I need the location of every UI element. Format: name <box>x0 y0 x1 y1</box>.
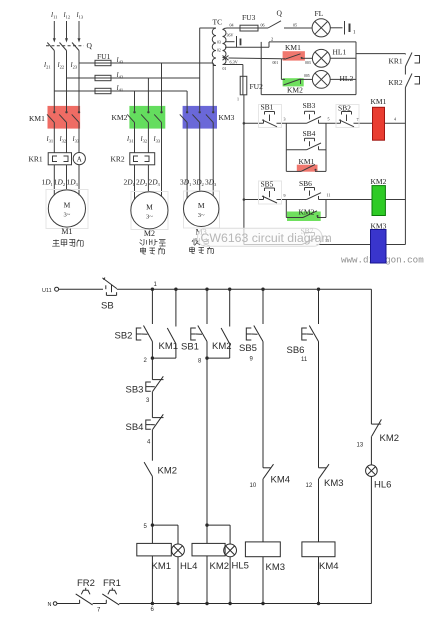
wire KM3 phase drops <box>187 28 213 109</box>
thermal contact FR1 <box>102 588 119 605</box>
wire KM1 outputs <box>54 127 79 153</box>
contactor KM1 main contacts (red highlight) <box>48 106 81 129</box>
svg-text:HL6: HL6 <box>374 480 391 491</box>
svg-text:FU3: FU3 <box>242 13 256 22</box>
thermal relay KR2 <box>130 153 155 165</box>
row 2 wires <box>244 199 406 201</box>
svg-text:M: M <box>198 201 205 210</box>
lamp panel loop wires <box>261 42 356 95</box>
svg-text:M1: M1 <box>61 227 72 236</box>
wire between FR2 FR1 <box>93 603 107 605</box>
svg-text:HL2: HL2 <box>340 74 354 83</box>
wire l43 branch <box>79 62 213 64</box>
contact KM1 latch (ladder) <box>152 289 176 358</box>
wire branch D <box>318 342 320 468</box>
wire KM2 outputs <box>135 127 162 197</box>
label 电动机 (M3, stylized) <box>190 247 214 254</box>
svg-text:KM4: KM4 <box>271 475 291 486</box>
svg-text:M: M <box>64 201 71 210</box>
svg-text:KM2: KM2 <box>112 113 128 122</box>
fuse FU1-c <box>95 88 111 93</box>
lamp HL5 <box>224 525 237 603</box>
pushbutton SB1 (ladder NO) <box>191 289 207 358</box>
contact KM1 self-latch (red highlight) <box>297 165 318 172</box>
pushbutton SB7 (NO) <box>302 233 317 245</box>
svg-text:l33: l33 <box>154 134 161 144</box>
contactor KM2 main contacts (green highlight) <box>129 106 165 129</box>
terminal U11 <box>55 287 59 291</box>
label 冷却泵 (stylized) <box>140 239 166 246</box>
svg-text:KM2: KM2 <box>371 177 387 186</box>
wire top rail <box>117 288 372 290</box>
svg-text:05: 05 <box>293 23 297 28</box>
svg-text:02: 02 <box>217 49 221 53</box>
svg-text:TC: TC <box>213 18 223 27</box>
pushbutton SB3 (NO start) <box>305 111 322 123</box>
svg-text:SB: SB <box>101 301 114 312</box>
svg-text:1: 1 <box>154 282 158 288</box>
svg-text:HL4: HL4 <box>180 561 197 572</box>
svg-text:l22: l22 <box>58 60 65 70</box>
svg-text:36V: 36V <box>227 33 234 38</box>
svg-text:2D2: 2D2 <box>136 178 147 188</box>
svg-text:KM1: KM1 <box>285 43 301 52</box>
svg-text:l11: l11 <box>51 10 57 20</box>
svg-text:5: 5 <box>328 117 330 122</box>
svg-text:KM2: KM2 <box>380 433 400 444</box>
svg-text:9: 9 <box>250 357 254 363</box>
wire branch B trunk <box>206 358 208 525</box>
svg-text:12: 12 <box>306 483 313 489</box>
svg-text:9: 9 <box>284 193 286 198</box>
contact KM2 aux (green highlight) <box>283 78 304 86</box>
svg-text:FR2: FR2 <box>77 578 95 589</box>
lamp HL2 <box>312 71 356 89</box>
wire bottom rail <box>119 603 371 605</box>
svg-text:l31: l31 <box>47 134 54 144</box>
svg-text:8: 8 <box>198 358 202 364</box>
svg-text:3: 3 <box>284 117 286 122</box>
wire node5 to HL4 branch <box>152 524 178 526</box>
contact KM1 aux (red highlight) <box>283 51 305 60</box>
svg-text:6: 6 <box>151 607 155 613</box>
svg-text:SB1: SB1 <box>261 103 274 112</box>
wire branch A upper <box>151 289 153 324</box>
svg-text:2D3: 2D3 <box>149 178 161 188</box>
svg-text:1D2: 1D2 <box>54 178 65 188</box>
svg-text:l21: l21 <box>44 60 51 70</box>
svg-text:SB6: SB6 <box>299 179 312 188</box>
pushbutton SB4 (NO) <box>286 138 326 150</box>
svg-text:SB3: SB3 <box>126 385 144 396</box>
svg-text:M: M <box>146 202 153 211</box>
svg-text:KM2: KM2 <box>212 341 232 352</box>
wire left control rail <box>243 95 246 245</box>
svg-text:06: 06 <box>261 23 265 28</box>
lamp FL <box>312 19 330 37</box>
svg-text:M2: M2 <box>144 229 155 238</box>
wire KR2 to motor M2 <box>135 165 149 200</box>
svg-text:KM1: KM1 <box>152 561 172 572</box>
svg-text:13: 13 <box>357 443 364 449</box>
parallel branch box row1 <box>286 123 326 171</box>
svg-text:11: 11 <box>327 193 331 198</box>
svg-text:SB3: SB3 <box>303 101 316 110</box>
svg-text:7: 7 <box>97 608 101 614</box>
svg-text:3~: 3~ <box>198 212 205 219</box>
svg-text:KR2: KR2 <box>111 155 125 164</box>
coil KM1 <box>373 107 385 140</box>
svg-text:CW6163 circuit diagram: CW6163 circuit diagram <box>201 231 332 245</box>
svg-text:l43: l43 <box>117 55 124 65</box>
lamp HL1 <box>312 49 356 67</box>
svg-text:KM3: KM3 <box>371 222 387 231</box>
row 3 wires <box>244 244 406 246</box>
thermal contact FR2 <box>76 588 93 605</box>
svg-text:FL: FL <box>315 9 324 18</box>
label 快速 (stylized) <box>192 238 210 246</box>
svg-text:KM2: KM2 <box>287 85 303 94</box>
wire branch E (right) <box>370 289 372 424</box>
parallel branch box row2 <box>286 200 326 218</box>
svg-text:5: 5 <box>144 524 148 530</box>
pushbutton SB5 (NC) <box>259 181 282 204</box>
label 电动机 (M2, stylized) <box>141 247 165 254</box>
lamp HL6 <box>366 436 378 603</box>
svg-text:4: 4 <box>394 117 396 122</box>
pushbutton SB1 (NC stop) <box>259 105 282 128</box>
node at KM2 coil <box>205 523 208 526</box>
svg-text:10: 10 <box>250 483 257 489</box>
ammeter A <box>73 153 85 165</box>
fuse FU2 <box>240 76 247 95</box>
svg-text:KR2: KR2 <box>389 78 403 87</box>
svg-text:005: 005 <box>304 74 310 78</box>
svg-text:KM4: KM4 <box>319 561 339 572</box>
svg-text:KM3: KM3 <box>219 113 235 122</box>
svg-text:003: 003 <box>305 61 311 65</box>
switch Q (control) <box>258 21 312 28</box>
svg-text:6.3V: 6.3V <box>230 60 238 65</box>
coil KM3 (ladder) <box>245 479 280 604</box>
svg-text:SB5: SB5 <box>261 180 274 189</box>
wire 6.3V tap <box>223 56 282 61</box>
thermal contact KR1 <box>405 53 419 67</box>
pushbutton SB4 (ladder NC) <box>146 391 164 429</box>
thermal relay KR1 <box>48 153 71 165</box>
svg-text:SB6: SB6 <box>287 345 305 356</box>
contactor KM3 main contacts (blue highlight) <box>183 106 217 129</box>
pushbutton SB2 (NC) <box>336 105 359 128</box>
coil KM2 <box>372 186 385 216</box>
label 主电动机 (main motor, stylized) <box>52 240 83 247</box>
svg-text:3~: 3~ <box>64 212 71 219</box>
coil KM4 (ladder) <box>302 479 335 604</box>
node L13 incoming phase arrow <box>78 21 81 43</box>
pushbutton SB5 (ladder NO) <box>246 289 263 341</box>
svg-text:HL5: HL5 <box>232 561 249 572</box>
contact KM2 self-latch (green highlight) <box>287 212 321 222</box>
contact KM2 latch (ladder) <box>207 289 230 358</box>
svg-text:FR1: FR1 <box>103 578 121 589</box>
svg-text:KM2: KM2 <box>158 466 178 477</box>
svg-text:01: 01 <box>223 67 227 71</box>
motor M1 <box>46 190 88 229</box>
svg-text:Q: Q <box>277 9 283 18</box>
svg-text:KM1: KM1 <box>371 97 387 106</box>
svg-text:KM2: KM2 <box>299 208 315 217</box>
svg-text:FU1: FU1 <box>97 52 111 61</box>
svg-text:001: 001 <box>273 61 279 65</box>
svg-text:1D1: 1D1 <box>42 178 53 188</box>
svg-text:03: 03 <box>217 41 221 45</box>
svg-text:l23: l23 <box>71 60 78 70</box>
wire right rail (top) <box>404 88 406 245</box>
svg-text:KM1: KM1 <box>159 341 179 352</box>
pushbutton SB6 (ladder NO) <box>302 289 319 341</box>
svg-text:SB4: SB4 <box>126 422 144 433</box>
svg-text:2D1: 2D1 <box>124 178 135 188</box>
node 2 <box>151 356 154 359</box>
svg-text:SB4: SB4 <box>303 129 316 138</box>
svg-text:2: 2 <box>144 358 148 364</box>
wire l41 branch <box>54 90 187 92</box>
wire phase1 vertical <box>53 51 55 109</box>
fuse FU1-a <box>95 60 111 65</box>
svg-text:l32: l32 <box>141 134 148 144</box>
svg-text:04: 04 <box>230 23 234 28</box>
node 8 <box>205 356 208 359</box>
pushbutton SB6 (NO) <box>305 188 322 200</box>
svg-text:KR1: KR1 <box>389 57 403 66</box>
wire branch C <box>262 342 264 468</box>
svg-text:3: 3 <box>146 398 150 404</box>
wire phase3 vertical <box>78 51 80 109</box>
svg-text:4: 4 <box>147 440 151 446</box>
wire bottom rail left <box>57 603 80 605</box>
svg-text:U11: U11 <box>42 288 52 294</box>
svg-text:l12: l12 <box>64 10 71 20</box>
svg-text:3D3: 3D3 <box>205 178 217 188</box>
svg-text:1: 1 <box>353 31 356 36</box>
thermal contact KR2 <box>405 67 419 88</box>
coil KM3 <box>371 230 387 264</box>
node 5 <box>151 523 154 526</box>
svg-text:N: N <box>48 602 52 608</box>
svg-text:3D2: 3D2 <box>193 178 204 188</box>
pushbutton SB2 (NC) <box>136 326 152 342</box>
svg-text:KM3: KM3 <box>266 562 286 573</box>
svg-text:SB2: SB2 <box>115 331 133 342</box>
svg-text:l13: l13 <box>77 10 84 20</box>
node L12 incoming phase arrow <box>65 21 68 43</box>
fuse FU1-b <box>95 75 111 80</box>
wire KR1 to motor M1 <box>54 165 79 196</box>
svg-text:KR1: KR1 <box>29 155 43 164</box>
svg-text:SB2: SB2 <box>338 104 351 113</box>
socket 36V tap <box>225 36 241 48</box>
contact KM2 (ladder NO right) <box>371 423 381 425</box>
svg-text:HL1: HL1 <box>333 48 347 57</box>
svg-text:KM3: KM3 <box>324 478 344 489</box>
wire TC top tap to FU3 <box>227 27 240 29</box>
svg-text:KM1: KM1 <box>29 114 45 123</box>
svg-text:l41: l41 <box>117 83 124 93</box>
wire 01 tap to FU2 <box>223 65 243 77</box>
lamp HL4 <box>172 525 185 603</box>
motor M2 <box>131 192 168 230</box>
transformer TC <box>200 28 227 66</box>
pushbutton SB3 (ladder NC) <box>146 358 164 391</box>
row 1 wires <box>244 122 406 124</box>
coil KM1 (ladder) <box>137 525 172 603</box>
wire tap 2 to control <box>225 42 405 54</box>
motor M3 <box>184 191 220 228</box>
node L11 incoming phase arrow <box>53 21 56 43</box>
contact KM4 (ladder NC) <box>263 464 274 478</box>
svg-text:1: 1 <box>237 97 239 102</box>
terminal N <box>53 602 57 606</box>
svg-text:l42: l42 <box>117 70 124 80</box>
contact KM3 (ladder NC) <box>319 464 330 478</box>
switch Q (3-pole disconnect) <box>46 43 84 51</box>
svg-text:KM2: KM2 <box>210 561 230 572</box>
svg-text:l31: l31 <box>127 134 134 144</box>
svg-text:Q: Q <box>87 41 93 50</box>
svg-text:l32: l32 <box>60 134 67 144</box>
wire to node 2 <box>151 342 153 359</box>
socket X1 <box>330 21 349 35</box>
svg-text:1D3: 1D3 <box>67 178 79 188</box>
svg-text:3D1: 3D1 <box>180 178 191 188</box>
wire KM2 phase drops <box>135 63 162 109</box>
wire KM3 outputs to motor M3 <box>187 127 213 199</box>
coil KM2 (ladder) <box>192 525 225 603</box>
fuse FU3 <box>240 25 258 31</box>
wire l42 branch <box>67 77 200 79</box>
wire top rail left <box>59 288 103 290</box>
watermark box <box>198 228 323 246</box>
svg-text:7: 7 <box>357 117 359 122</box>
contact KM2 (ladder NO) <box>144 429 152 525</box>
svg-text:2: 2 <box>271 37 273 42</box>
svg-text:A: A <box>77 155 82 163</box>
pushbutton SB (NC emergency stop) <box>102 278 116 296</box>
svg-text:SB5: SB5 <box>239 343 257 354</box>
svg-text:KM1: KM1 <box>299 157 315 166</box>
node 6 <box>151 602 320 605</box>
svg-text:3~: 3~ <box>146 213 153 220</box>
wire phase2 vertical <box>66 51 68 109</box>
svg-text:SB1: SB1 <box>181 342 199 353</box>
svg-text:11: 11 <box>301 357 308 363</box>
node 1 <box>151 288 320 291</box>
